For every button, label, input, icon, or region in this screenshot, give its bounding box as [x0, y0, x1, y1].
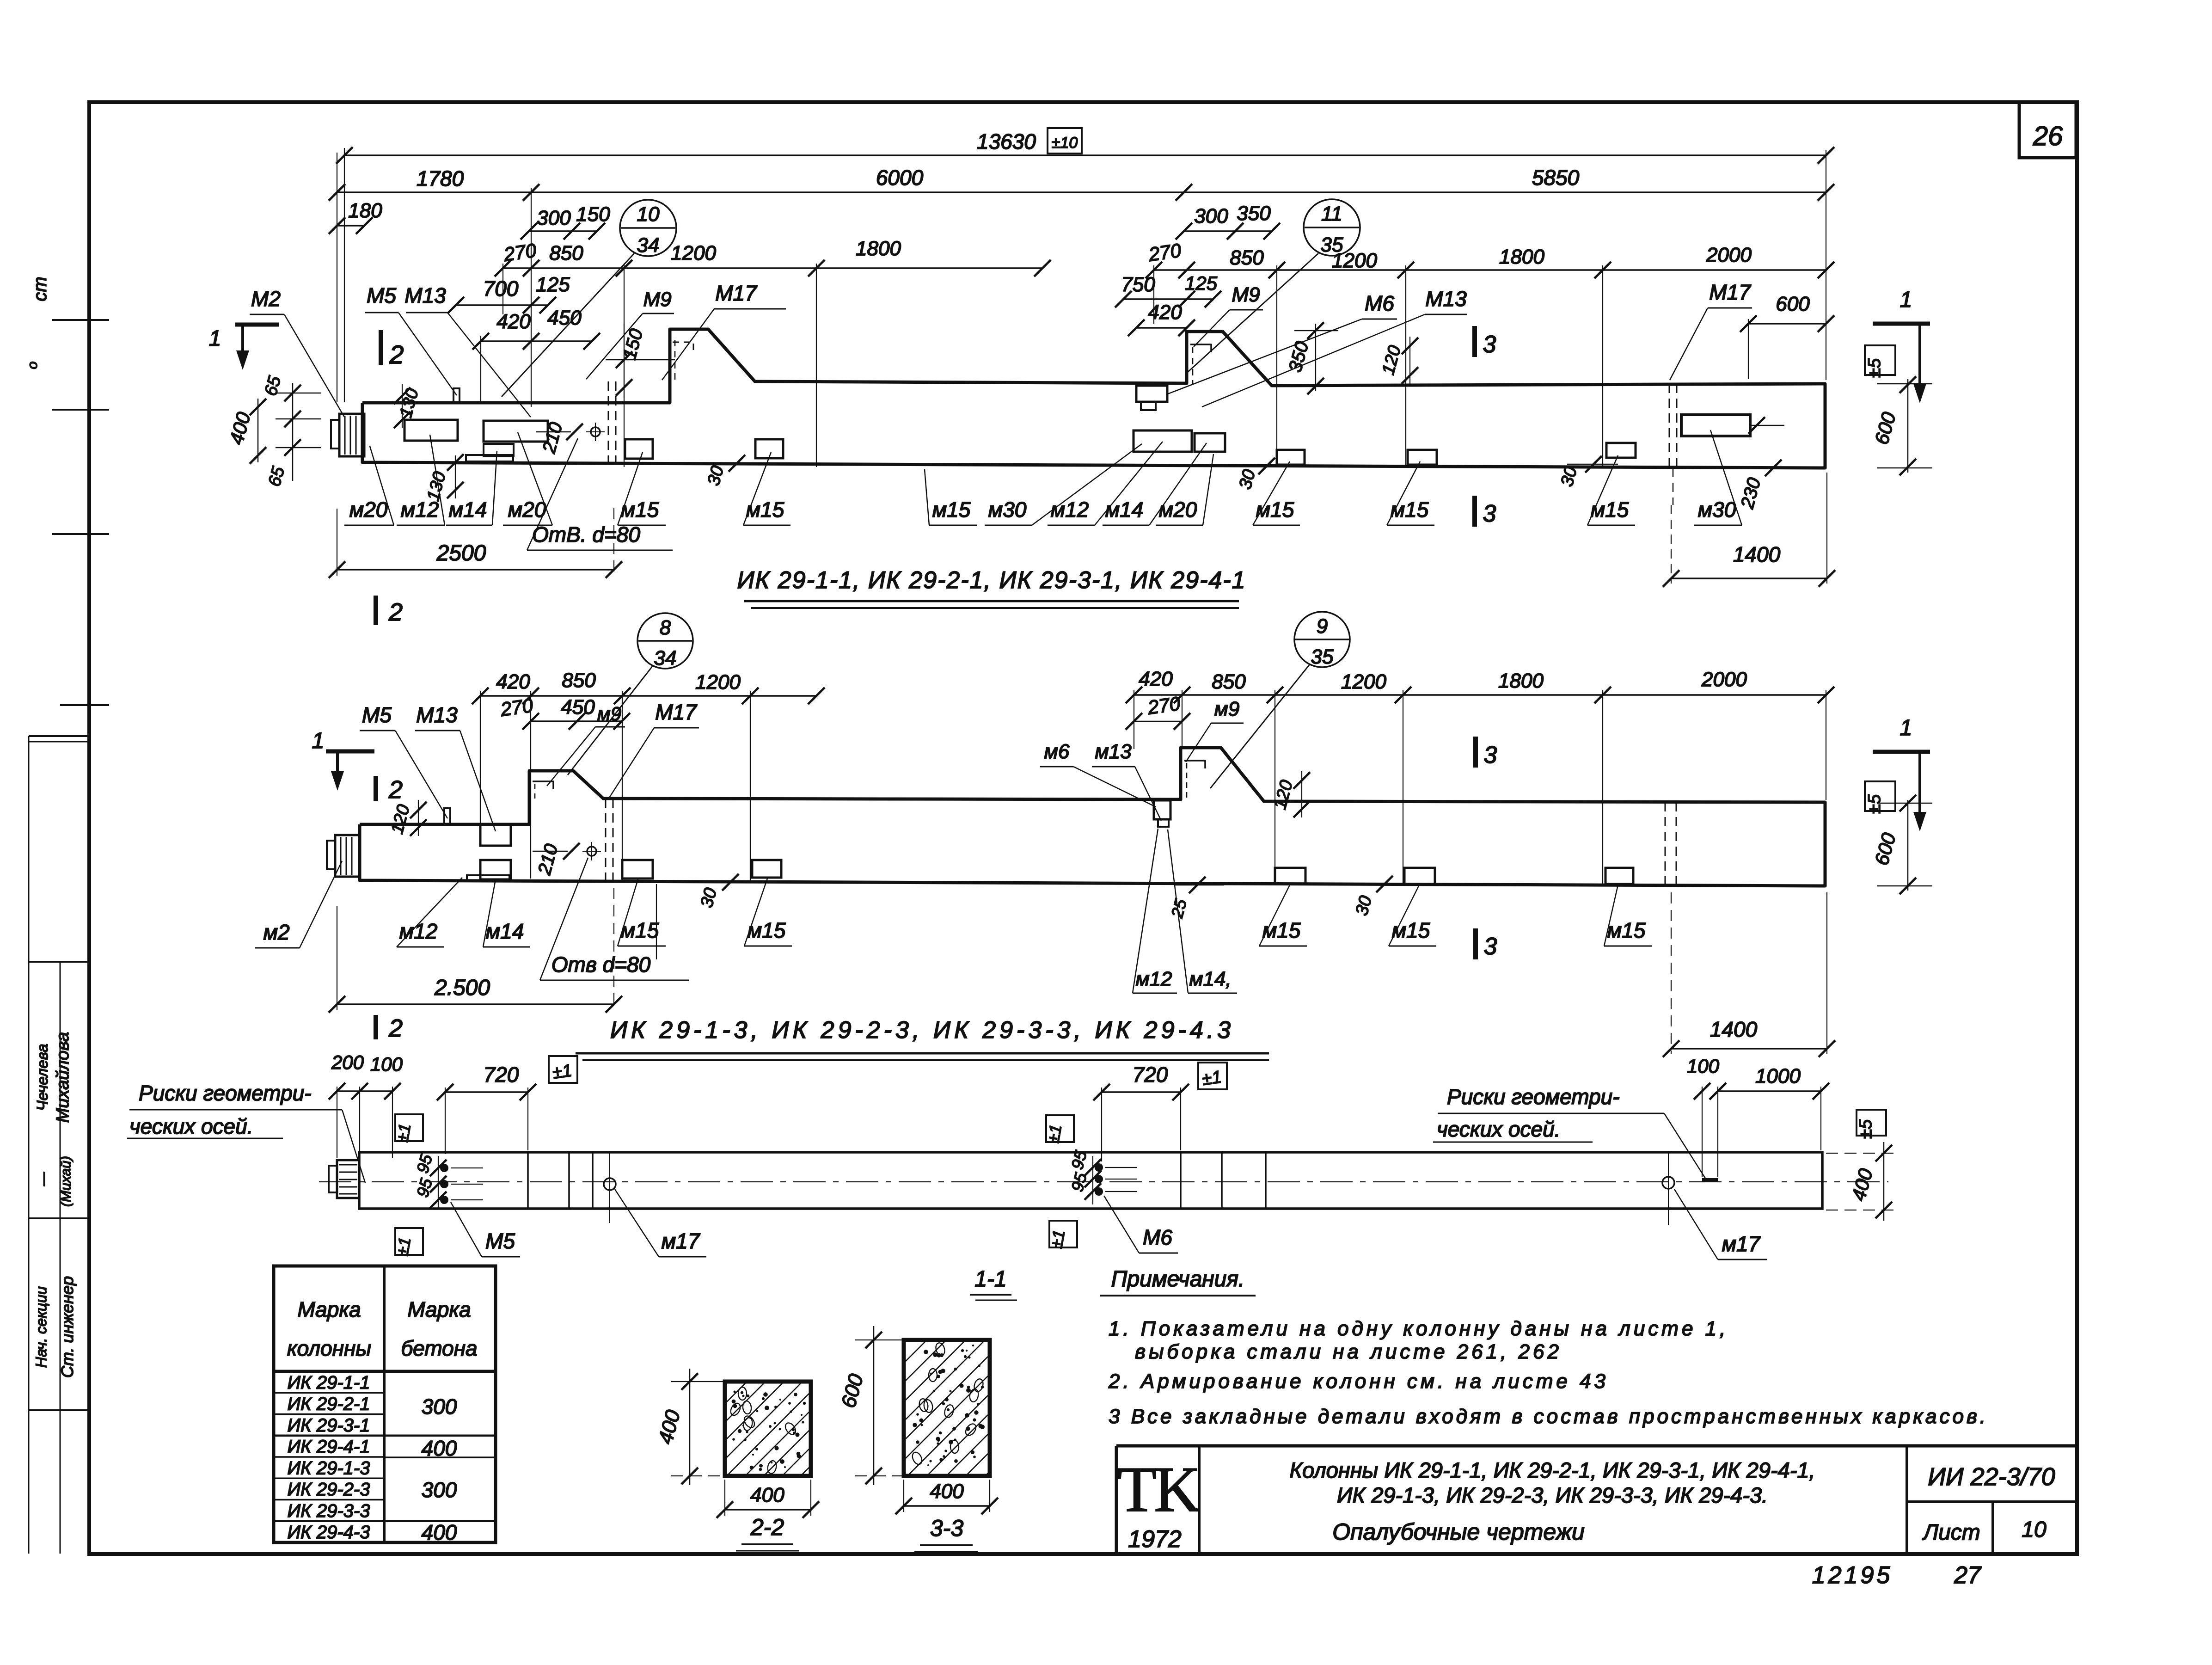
svg-text:М5: М5: [367, 283, 396, 307]
dim 1400 drawing1: [1671, 578, 1827, 579]
label M6 leader: [1168, 319, 1362, 394]
plan dim 400 vertical: [1883, 1142, 1885, 1221]
dim row 270-450 drawing2: [531, 720, 622, 722]
dim 420-450 line: [481, 340, 592, 342]
extension line x3041: [1405, 265, 1406, 467]
svg-text:1800: 1800: [1499, 246, 1544, 268]
left margin tick y886: [52, 409, 109, 411]
plan label riski left leader: [342, 1110, 365, 1183]
svg-text:1400: 1400: [1710, 1017, 1758, 1041]
svg-text:ОтВ. d=80: ОтВ. d=80: [532, 522, 640, 547]
callout 10/34 leader: [502, 253, 634, 397]
svg-text:720: 720: [484, 1063, 519, 1087]
svg-text:м15: м15: [932, 498, 971, 522]
svg-text:10: 10: [2022, 1518, 2047, 1542]
extension line x745 top: [344, 148, 345, 402]
svg-text:колонны: колонны: [287, 1336, 371, 1360]
svg-text:о: о: [25, 362, 40, 369]
tolerance box plus-minus1 d: [1198, 1063, 1227, 1089]
svg-text:350: 350: [1237, 202, 1271, 225]
tolerance box plus-minus1 a: [549, 1056, 577, 1083]
section 3-3 concrete dots: [978, 1424, 982, 1428]
plan riska mark: [1702, 1178, 1718, 1182]
svg-text:1000: 1000: [1755, 1065, 1801, 1087]
section mark 2 top drawing1: [379, 330, 383, 365]
svg-text:1780: 1780: [417, 166, 464, 190]
section mark 2 bottom drawing2: [374, 1015, 378, 1039]
svg-text:м30: м30: [988, 498, 1027, 522]
extension lines drawing2 right: [1134, 690, 1134, 749]
plate thin bottom drawing2: [467, 875, 509, 881]
svg-text:м14: м14: [486, 919, 524, 943]
svg-text:35: 35: [1311, 645, 1334, 668]
table marka kolonny: [274, 1266, 496, 1542]
label M17b leader: [1670, 308, 1708, 380]
dim 420 drawing1 console2: [1136, 327, 1187, 329]
console1 anchor hook drawing2: [533, 781, 553, 789]
plate M15-4 drawing1: [1408, 450, 1437, 465]
dim row 1780-6000-5850 line: [337, 191, 1826, 193]
callout circle 11/35: [1304, 199, 1360, 256]
svg-text:1200: 1200: [1341, 670, 1386, 693]
plate M20 drawing1 left-block: [484, 421, 548, 442]
dim 350 vertical console2: [1315, 324, 1316, 391]
plan axis line: [319, 1181, 1888, 1182]
svg-text:м20: м20: [508, 498, 546, 522]
dim row 420-850-1200 drawing2: [480, 695, 816, 697]
svg-text:270: 270: [502, 239, 538, 265]
label M17 leader: [662, 309, 714, 380]
plan dim 1000: [1718, 1090, 1821, 1092]
svg-text:м15: м15: [1391, 498, 1429, 522]
svg-text:ИК 29-2-1: ИК 29-2-1: [288, 1394, 370, 1414]
plan division lines group1: [527, 1152, 529, 1209]
svg-text:±5: ±5: [1865, 358, 1884, 378]
table row ИК 29-3-1: [274, 1435, 496, 1437]
svg-text:100: 100: [1687, 1055, 1720, 1077]
section 2-2 square: [725, 1382, 811, 1476]
svg-text:ИК 29-1-1: ИК 29-1-1: [288, 1372, 370, 1393]
plate small below M20 drawing1: [484, 444, 514, 456]
svg-text:бетона: бетона: [401, 1336, 477, 1360]
svg-text:850: 850: [562, 669, 596, 692]
svg-text:27: 27: [1954, 1562, 1982, 1589]
svg-text:26: 26: [2033, 121, 2063, 151]
plan dim 720 middle: [1102, 1091, 1181, 1093]
svg-text:8: 8: [660, 616, 671, 639]
plan M6 anchor dots: [1095, 1163, 1103, 1172]
plate M30 drawing1: [1681, 415, 1750, 436]
page number box 26: [2019, 102, 2076, 158]
svg-text:200: 200: [331, 1051, 364, 1073]
svg-text:Примечания.: Примечания.: [1111, 1267, 1245, 1291]
console2 anchor hook: [1190, 344, 1211, 352]
column IK29-x-1 outline: [362, 329, 1825, 468]
svg-text:м30: м30: [1698, 498, 1736, 522]
dim 2500 drawing2: [337, 1003, 614, 1005]
table row ИК 29-1-3: [274, 1478, 384, 1480]
sheet frame border: [89, 102, 2077, 1554]
svg-text:2: 2: [388, 776, 403, 804]
svg-text:720: 720: [1133, 1063, 1168, 1087]
section 2-2 concrete dots: [747, 1395, 749, 1397]
callout 9/35 leader: [1210, 664, 1310, 788]
left margin staff divider y2080: [29, 961, 89, 963]
svg-text:М6: М6: [1365, 291, 1394, 315]
svg-text:м2: м2: [263, 920, 289, 944]
dim 750-125 drawing1 console2: [1123, 298, 1213, 300]
svg-text:1: 1: [312, 729, 325, 753]
hole Otv d80 drawing1: [591, 427, 600, 436]
plan dim 720 left: [445, 1091, 528, 1093]
svg-text:1200: 1200: [695, 671, 741, 694]
title block outline: [1116, 1444, 2076, 1448]
extension line x1149: [531, 188, 532, 407]
plan view outline: [359, 1152, 1822, 1209]
svg-text:34: 34: [654, 647, 677, 670]
svg-text:450: 450: [547, 307, 582, 329]
svg-text:ИК 29-1-3: ИК 29-1-3: [288, 1458, 370, 1478]
svg-text:TK: TK: [1117, 1454, 1201, 1525]
svg-text:400: 400: [750, 1484, 784, 1506]
section mark 3 top drawing2: [1473, 737, 1478, 768]
svg-text:3: 3: [1483, 500, 1496, 527]
svg-text:Михайлова: Михайлова: [53, 1032, 73, 1123]
svg-text:±1: ±1: [551, 1061, 573, 1082]
svg-text:М2: М2: [251, 287, 281, 311]
svg-text:м20: м20: [349, 498, 388, 522]
svg-text:м15: м15: [1591, 498, 1629, 522]
svg-text:Отв d=80: Отв d=80: [551, 952, 651, 977]
svg-text:420: 420: [1148, 301, 1182, 324]
dim row 270-850-1200-1800 left: [503, 267, 1042, 269]
section mark 2 top drawing2: [374, 776, 378, 801]
svg-text:100: 100: [370, 1053, 403, 1075]
plate M5 tab drawing2: [444, 808, 450, 824]
svg-text:ческих осей.: ческих осей.: [1437, 1117, 1561, 1141]
svg-text:270: 270: [1146, 692, 1182, 719]
label M13 leader: [447, 313, 531, 417]
plate M15-2 drawing1: [755, 439, 783, 458]
svg-text:150: 150: [576, 203, 610, 226]
table row ИК 29-3-3: [274, 1520, 496, 1523]
tolerance box plus-minus1 c: [395, 1228, 423, 1255]
svg-text:1200: 1200: [671, 242, 716, 264]
svg-text:400: 400: [930, 1480, 964, 1503]
svg-text:750: 750: [1121, 273, 1155, 296]
svg-text:м17: м17: [662, 1229, 700, 1253]
label M9 leader: [586, 313, 643, 379]
plate M15-5 drawing2: [1605, 868, 1633, 884]
svg-text:м14: м14: [449, 498, 487, 522]
plate M14 drawing1 console2: [1195, 433, 1225, 452]
svg-text:м15: м15: [1607, 918, 1646, 942]
dim row 13630 line: [344, 154, 1826, 156]
svg-text:±1: ±1: [392, 1236, 414, 1257]
svg-text:2: 2: [388, 598, 403, 626]
plan M5 anchor dots: [440, 1164, 448, 1172]
svg-text:1. Показатели на одну колон: 1. Показатели на одну колонну даны на ли…: [1109, 1317, 1728, 1340]
svg-text:Чечелева: Чечелева: [34, 1044, 51, 1111]
left margin staff column inner line: [60, 962, 61, 1554]
svg-text:300: 300: [422, 1478, 457, 1502]
label M13b leader: [1202, 314, 1425, 407]
svg-text:ИК 29-3-3: ИК 29-3-3: [288, 1501, 370, 1521]
svg-text:Марка: Марка: [297, 1297, 361, 1321]
svg-text:13630: 13630: [977, 129, 1036, 154]
plate M15-4 drawing2: [1404, 868, 1435, 884]
svg-text:М13: М13: [416, 703, 458, 727]
svg-text:1: 1: [209, 326, 221, 351]
svg-text:м14: м14: [1105, 498, 1144, 522]
dim 1400 drawing2: [1671, 1048, 1827, 1050]
svg-text:2500: 2500: [436, 541, 486, 565]
svg-text:м12: м12: [401, 498, 439, 522]
plate M15-5 drawing1: [1606, 443, 1636, 458]
column IK29-x-3 outline: [360, 748, 1825, 886]
plate M13 hanging drawing2 console2: [1154, 800, 1170, 819]
svg-text:11: 11: [1321, 203, 1342, 225]
tolerance box plus-minus1 f: [1049, 1221, 1077, 1247]
plate M13 drawing2: [480, 824, 511, 846]
plate M15-1 drawing2: [622, 860, 653, 879]
svg-text:ИК 29-4-3: ИК 29-4-3: [288, 1522, 370, 1542]
svg-text:2000: 2000: [1706, 244, 1752, 266]
svg-text:600: 600: [1776, 293, 1810, 315]
label M5 leader: [398, 313, 457, 395]
svg-text:9: 9: [1317, 615, 1328, 638]
extension line x2762: [1276, 265, 1277, 467]
svg-text:6000: 6000: [876, 166, 924, 190]
svg-text:М17: М17: [1709, 280, 1751, 304]
svg-text:125: 125: [1185, 272, 1218, 294]
svg-text:Марка: Марка: [407, 1297, 471, 1321]
svg-text:2: 2: [388, 1014, 403, 1042]
left margin staff column outer line: [28, 736, 30, 1554]
section mark 2 bottom drawing1: [374, 596, 378, 625]
console2 dim 300-350 line: [1184, 230, 1272, 232]
svg-text:ИК 29-2-3: ИК 29-2-3: [288, 1480, 370, 1500]
svg-text:850: 850: [1212, 670, 1246, 693]
section mark 3 bottom drawing1: [1472, 496, 1477, 527]
svg-text:3: 3: [1484, 933, 1497, 960]
plate thin bottom drawing1: [466, 455, 513, 461]
plan label riski right leader: [1664, 1113, 1706, 1179]
svg-text:М5: М5: [485, 1229, 515, 1253]
svg-text:1: 1: [1900, 288, 1912, 312]
svg-text:12195: 12195: [1812, 1562, 1893, 1589]
svg-text:м9: м9: [597, 703, 621, 725]
section mark 3 bottom drawing2: [1473, 928, 1478, 959]
svg-text:700: 700: [483, 276, 519, 301]
callout 11/35 leader: [1188, 253, 1318, 372]
svg-text:ИИ 22-3/70: ИИ 22-3/70: [1928, 1463, 2055, 1491]
joint dashed pair drawing2 left: [605, 799, 607, 880]
plate M15-1 drawing1: [625, 439, 653, 459]
svg-text:300: 300: [1194, 205, 1228, 227]
callout circle 8/34: [637, 613, 693, 669]
svg-text:м15: м15: [1392, 918, 1430, 942]
svg-text:ИК 29-1-3, ИК 29-2-3, ИК 29-3-: ИК 29-1-3, ИК 29-2-3, ИК 29-3-3, ИК 29-4…: [610, 1017, 1234, 1044]
callout circle 10/34: [620, 200, 676, 256]
svg-text:Лист: Лист: [1922, 1520, 1980, 1545]
plate M14 drawing2: [480, 860, 511, 879]
plate M15-2 drawing2: [752, 860, 781, 878]
svg-text:ст: ст: [30, 276, 50, 301]
plan division lines group2: [1180, 1152, 1182, 1209]
dim 180: [337, 225, 364, 227]
svg-text:10: 10: [637, 203, 660, 226]
section mark 3 top drawing1: [1472, 326, 1477, 357]
svg-text:270: 270: [1147, 239, 1183, 265]
svg-text:±1: ±1: [392, 1122, 414, 1143]
section 2-2 dim 400 bottom: [725, 1509, 811, 1511]
svg-text:м15: м15: [1262, 918, 1301, 942]
label M2 leader: [284, 314, 344, 417]
svg-text:(Михай): (Михай): [58, 1156, 74, 1207]
left margin tick y1525: [60, 704, 109, 706]
plate M15-3 drawing1: [1277, 450, 1305, 465]
svg-text:М9: М9: [1232, 283, 1260, 306]
tolerance box plus-minus1 b: [395, 1114, 423, 1141]
svg-text:М6: М6: [1143, 1225, 1172, 1249]
extension line x3950: [1826, 150, 1826, 380]
svg-text:М9: М9: [643, 288, 671, 311]
table row ИК 29-2-1: [274, 1413, 384, 1415]
console2 anchor hook drawing2: [1184, 761, 1205, 768]
extension line x1088: [502, 264, 503, 314]
plate M12 drawing1 console2: [1134, 430, 1192, 452]
svg-text:м20: м20: [1159, 498, 1197, 522]
extension line x2496: [1153, 265, 1154, 324]
svg-text:ИК 29-4-1: ИК 29-4-1: [288, 1437, 370, 1457]
svg-text:1972: 1972: [1128, 1526, 1182, 1553]
left margin staff divider y1592: [29, 735, 89, 737]
svg-text:420: 420: [1139, 668, 1173, 690]
svg-text:850: 850: [1230, 246, 1264, 269]
svg-text:3 Все закладные детали вхо: 3 Все закладные детали входят в состав п…: [1109, 1405, 1988, 1428]
callout circle 9/35: [1294, 612, 1350, 667]
svg-text:Колонны ИК 29-1-1, ИК 29-2-1,: Колонны ИК 29-1-1, ИК 29-2-1, ИК 29-3-1,…: [1289, 1458, 1815, 1482]
dim 700-125 line: [456, 304, 548, 306]
console1 dim 300-150 line: [529, 230, 597, 232]
svg-text:м15: м15: [621, 918, 659, 942]
section 3-3 dim 600 vertical: [873, 1326, 875, 1485]
svg-text:1400: 1400: [1733, 542, 1781, 566]
tolerance box plus-minus 5 drawing1: [1865, 345, 1895, 375]
extension line x1766: [816, 264, 817, 467]
plate M5 tab top edge drawing1: [453, 388, 460, 403]
svg-text:2000: 2000: [1701, 668, 1747, 691]
extension line left end x729: [337, 153, 337, 402]
svg-text:Опалубочные чертежи: Опалубочные чертежи: [1332, 1519, 1585, 1545]
svg-text:ИК 29-1-1, ИК 29-2-1, ИК 29-3-: ИК 29-1-1, ИК 29-2-1, ИК 29-3-1, ИК 29-4…: [737, 567, 1246, 594]
svg-text:5850: 5850: [1532, 166, 1580, 190]
left margin staff divider y3050: [29, 1409, 89, 1411]
svg-text:420: 420: [496, 670, 530, 693]
svg-text:выборка стали на листе 26: выборка стали на листе 261, 262: [1135, 1340, 1562, 1363]
dim row drawing2 right 420-850-1200-1800-2000: [1134, 694, 1826, 696]
hole Otv d80 drawing2: [587, 847, 596, 856]
tolerance box plus-minus 5 plan: [1857, 1110, 1886, 1136]
svg-text:Нач. секции: Нач. секции: [33, 1286, 49, 1368]
svg-text:м12: м12: [1135, 968, 1172, 990]
svg-text:3: 3: [1483, 331, 1496, 358]
svg-text:±5: ±5: [1865, 794, 1884, 814]
tolerance box plus-minus1 e: [1046, 1115, 1074, 1142]
table row ИК 29-1-1: [274, 1392, 384, 1394]
plate hanging M13 console2 drawing1: [1136, 386, 1167, 402]
plan left tenon: [337, 1160, 359, 1198]
plan hole M17 right: [1662, 1177, 1674, 1189]
svg-text:1-1: 1-1: [974, 1267, 1006, 1291]
dim 600 vertical right drawing2: [1907, 800, 1909, 891]
svg-text:М5: М5: [362, 703, 392, 727]
svg-text:34: 34: [637, 234, 660, 257]
tolerance box plus-minus 5 drawing2: [1865, 781, 1895, 811]
svg-text:М17: М17: [655, 700, 697, 724]
svg-text:±10: ±10: [1052, 134, 1078, 152]
plan hole M17 left: [604, 1178, 616, 1190]
joint dashed pair drawing1 right: [1669, 384, 1670, 468]
svg-text:1800: 1800: [856, 237, 901, 260]
svg-text:Риски геометри-: Риски геометри-: [139, 1081, 312, 1105]
extension line x1350: [624, 264, 625, 467]
svg-text:М13: М13: [1425, 287, 1467, 311]
svg-text:м9: м9: [1214, 698, 1240, 720]
svg-text:±1: ±1: [1201, 1067, 1223, 1089]
svg-text:2: 2: [389, 340, 404, 369]
svg-text:180: 180: [348, 199, 382, 222]
svg-text:1800: 1800: [1498, 670, 1544, 692]
svg-text:ческих осей.: ческих осей.: [129, 1114, 253, 1138]
svg-text:270: 270: [499, 694, 535, 720]
table row ИК 29-4-1: [274, 1456, 384, 1458]
svg-text:м6: м6: [1044, 740, 1070, 763]
extension lines drawing2 left: [480, 691, 481, 828]
svg-text:400: 400: [422, 1436, 457, 1460]
left margin staff divider y2635: [29, 1217, 89, 1219]
section 3-3 dim 400 bottom: [904, 1505, 990, 1507]
svg-text:1: 1: [1900, 716, 1912, 740]
svg-text:2.500: 2.500: [434, 976, 490, 1000]
svg-text:300: 300: [537, 207, 571, 229]
svg-text:м12: м12: [1051, 498, 1089, 522]
svg-text:400: 400: [422, 1520, 457, 1544]
svg-text:±1: ±1: [1047, 1229, 1068, 1250]
plate M12 drawing1: [404, 420, 458, 441]
column left tenon drawing1: [339, 414, 364, 456]
svg-text:420: 420: [496, 310, 531, 333]
extension line x1040: [480, 336, 481, 402]
section 3-3 rect: [904, 1340, 990, 1476]
dim 600 vertical right drawing1: [1907, 379, 1909, 473]
svg-text:2-2: 2-2: [750, 1514, 784, 1540]
svg-text:М17: М17: [715, 281, 757, 305]
svg-text:Ст. инженер: Ст. инженер: [58, 1276, 77, 1378]
svg-text:850: 850: [549, 242, 583, 264]
svg-text:м14,: м14,: [1189, 968, 1231, 990]
extension line x3467: [1602, 265, 1603, 467]
dim 400-65-65 left stack: [257, 399, 259, 462]
svg-text:Риски геометри-: Риски геометри-: [1447, 1085, 1620, 1109]
column left tenon drawing2: [335, 835, 360, 877]
svg-text:300: 300: [422, 1395, 457, 1419]
svg-text:35: 35: [1321, 233, 1343, 256]
tolerance box plus-minus 10: [1048, 128, 1082, 154]
svg-text:±5: ±5: [1856, 1119, 1875, 1139]
svg-text:м13: м13: [1095, 740, 1132, 763]
